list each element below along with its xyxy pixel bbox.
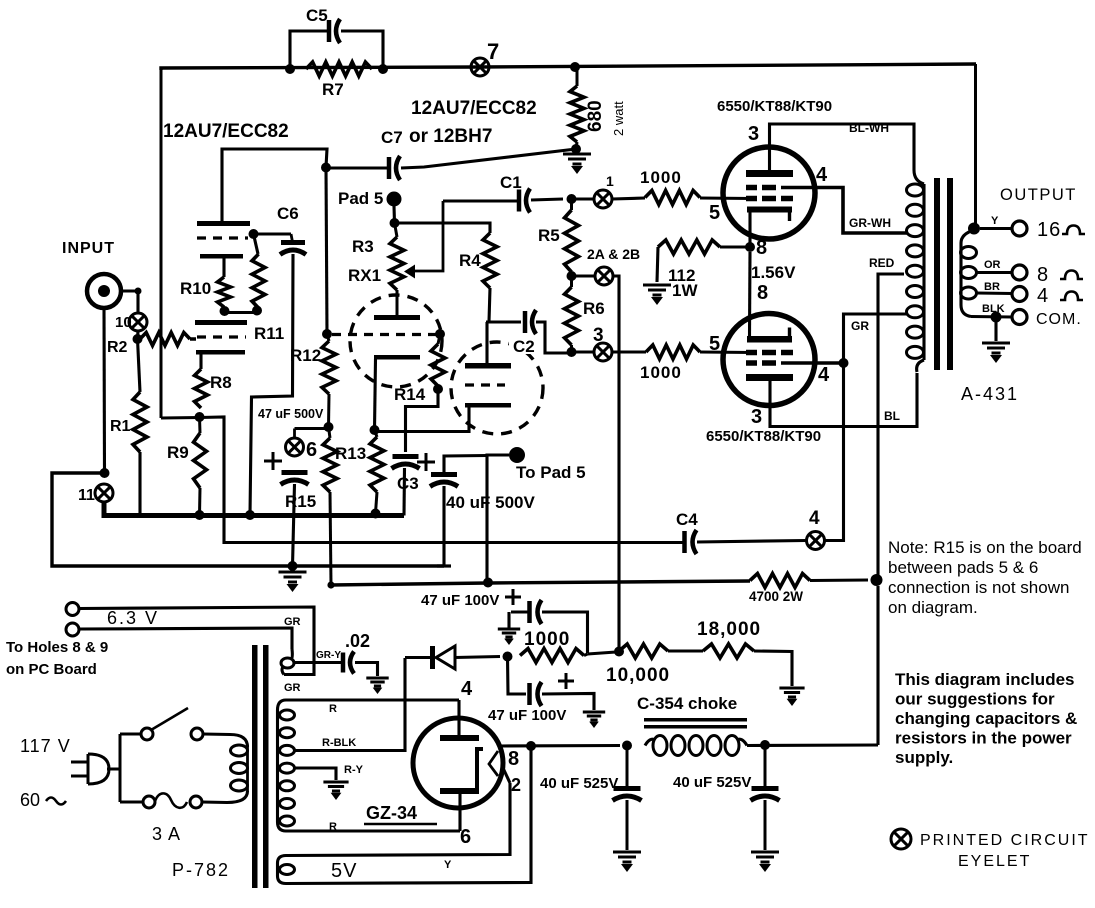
wire top feedback rail <box>161 64 976 70</box>
label 47uF 100V first <box>421 592 499 609</box>
label C3 <box>397 474 419 493</box>
terminal COM <box>1012 310 1027 325</box>
svg-text:C2: C2 <box>513 337 535 356</box>
tube V1b cathode <box>196 350 245 355</box>
wire B+ node to choke <box>876 586 879 745</box>
svg-text:Y: Y <box>991 215 999 227</box>
node C7 left junction <box>321 163 331 173</box>
wire R-BLK to diode <box>294 658 405 751</box>
svg-text:6: 6 <box>460 826 471 848</box>
wire pad to caps <box>487 455 509 582</box>
terminal To Pad 5 <box>509 447 525 463</box>
wire GR tap <box>844 314 909 363</box>
svg-text:on diagram.: on diagram. <box>888 598 978 617</box>
label C5 <box>306 6 328 25</box>
label pin5 upper <box>709 202 720 224</box>
svg-text:R-Y: R-Y <box>344 764 364 776</box>
label GR-Y <box>316 650 341 661</box>
transformer primary spine <box>914 170 924 372</box>
node COM ground <box>991 312 1002 323</box>
transformer primary windings <box>907 184 924 358</box>
wiper arrow RX1 <box>404 201 443 279</box>
label R10 <box>180 279 211 298</box>
wire C7 to 680 bottom <box>401 149 576 168</box>
ground cap2 <box>583 712 605 728</box>
transformer secondary windings <box>961 247 977 300</box>
wire V2b plate up <box>485 322 488 364</box>
ground main <box>279 572 307 592</box>
wire shield to ground rail <box>52 473 292 566</box>
ground cap525 right <box>751 852 779 872</box>
node R12 bottom <box>324 422 334 432</box>
label 12AU7/ECC82 or 12BH7 <box>409 98 537 147</box>
ground cap1 <box>498 629 520 645</box>
label To Holes 8 and 9 <box>6 639 108 656</box>
node after C1 <box>567 194 577 204</box>
label 4 <box>1037 285 1048 307</box>
wire to eyelet1 <box>572 197 595 200</box>
wire cap2 right <box>542 694 594 711</box>
svg-text:10,000: 10,000 <box>606 665 670 686</box>
wire COM ground <box>994 317 997 341</box>
label .02 <box>345 631 370 651</box>
svg-text:R12: R12 <box>290 346 321 365</box>
node R2 left <box>133 334 143 344</box>
capacitor C3 <box>392 457 420 469</box>
tube output upper envelope <box>723 147 815 239</box>
tube V2a grid <box>332 333 440 336</box>
label R3 <box>352 237 374 256</box>
svg-text:Pad 5: Pad 5 <box>338 189 383 208</box>
capacitor 40uF 500V <box>430 475 458 487</box>
svg-text:1W: 1W <box>672 281 698 300</box>
label 6 <box>306 439 317 461</box>
capacitor C1 <box>519 189 530 213</box>
wire feedback join <box>161 416 200 420</box>
label OR <box>984 259 1001 271</box>
svg-text:12AU7/ECC82: 12AU7/ECC82 <box>163 121 289 142</box>
node B+ feed left <box>483 578 493 588</box>
wire 18000 to ground <box>754 651 792 686</box>
svg-text:60: 60 <box>20 790 40 810</box>
resistor R12 <box>322 334 336 427</box>
label R12 <box>290 346 321 365</box>
tube GZ34 cathode <box>477 749 498 790</box>
node pin8 upper <box>745 242 755 252</box>
tube V1b grid <box>197 335 246 338</box>
label R-Y <box>344 764 364 776</box>
terminal 4 ohm <box>1012 287 1027 302</box>
svg-text:R1: R1 <box>110 418 131 435</box>
tube V1b plate <box>195 320 247 325</box>
label on PC Board <box>6 661 97 678</box>
label 3 <box>593 325 604 346</box>
svg-text:10: 10 <box>115 314 132 331</box>
wire V1a plate to C7 node <box>222 149 327 221</box>
resistor R8 <box>195 369 208 408</box>
wire 112 to pin8 <box>720 245 746 248</box>
svg-text:R7: R7 <box>322 80 344 99</box>
ground .02 <box>366 678 388 694</box>
svg-text:2 watt: 2 watt <box>611 101 626 136</box>
wire C4 to eyelet4 <box>697 541 806 543</box>
label R4 <box>459 251 481 270</box>
svg-text:R3: R3 <box>352 237 374 256</box>
tube V2b grid <box>465 383 505 386</box>
label pin2 GZ34 <box>511 775 521 795</box>
node R6 bottom <box>567 347 577 357</box>
svg-text:Y: Y <box>444 859 452 871</box>
tube output lower envelope <box>723 314 815 406</box>
legend eyelet symbol <box>891 829 911 849</box>
wire pin8 to 5V bottom <box>286 746 531 884</box>
svg-text:40 uF 500V: 40 uF 500V <box>446 493 535 512</box>
pad 5 terminal <box>387 192 402 207</box>
ground R-Y <box>323 782 348 800</box>
fuse 3A <box>143 793 202 808</box>
svg-text:R4: R4 <box>459 251 481 270</box>
wire 4700 to B+ node <box>810 578 868 582</box>
eyelet 3 <box>594 343 612 361</box>
tube V2b plate <box>465 363 511 369</box>
label pin5 lower <box>709 333 720 355</box>
label Y wire <box>444 859 452 871</box>
svg-text:connection is not shown: connection is not shown <box>888 578 1069 597</box>
svg-text:C1: C1 <box>500 173 522 192</box>
tube lower plate <box>746 374 793 381</box>
label R2 <box>107 339 128 356</box>
label R8 <box>210 373 232 392</box>
node R10 bottom <box>220 306 230 316</box>
svg-text:8: 8 <box>508 748 519 770</box>
label GR <box>851 319 869 333</box>
svg-text:our suggestions for: our suggestions for <box>895 690 1055 709</box>
svg-text:47 uF 500V: 47 uF 500V <box>258 407 324 421</box>
label RX1 <box>348 266 381 285</box>
svg-text:R9: R9 <box>167 443 189 462</box>
legend EYELET <box>958 853 1031 870</box>
tube V1a plate <box>197 221 250 226</box>
label 47uF 100V second <box>488 707 566 724</box>
svg-text:4: 4 <box>1037 285 1048 307</box>
svg-text:C3: C3 <box>397 474 419 493</box>
transformer P-782 core <box>252 645 269 888</box>
wire C2 right down to eyelet3 line <box>536 322 572 353</box>
svg-text:1000: 1000 <box>640 363 682 382</box>
svg-text:3: 3 <box>751 406 762 428</box>
wire R2 node down to R1 <box>138 339 141 392</box>
resistor cathode shared <box>370 430 384 513</box>
svg-text:R14: R14 <box>394 385 426 404</box>
diode bias <box>405 646 500 669</box>
node 680 bottom <box>571 144 581 154</box>
svg-text:5: 5 <box>709 333 720 355</box>
svg-text:.02: .02 <box>345 631 370 651</box>
svg-text:3 A: 3 A <box>152 824 181 844</box>
resistor R4 <box>483 233 497 288</box>
node junction right of R7 <box>378 64 388 74</box>
node cathode res bottom on rail <box>371 509 381 519</box>
wire RED tap <box>878 274 904 575</box>
svg-text:C4: C4 <box>676 510 698 529</box>
resistor 1000 bias <box>520 649 584 663</box>
wire ground rail right <box>293 564 445 568</box>
label 8 <box>1037 264 1048 286</box>
svg-text:BR: BR <box>984 281 1000 293</box>
wire upper plate to BL-WH <box>770 124 915 170</box>
wire R-Y to ground <box>294 768 336 780</box>
wire C6 down to rail <box>250 254 293 515</box>
wire R10-R11 bottoms <box>225 311 258 314</box>
label 6.3 V <box>107 608 159 628</box>
svg-text:GR-WH: GR-WH <box>849 216 891 230</box>
svg-text:6: 6 <box>306 439 317 461</box>
wire to C7 <box>326 166 387 169</box>
label 117V <box>20 736 71 756</box>
node pin4 lower <box>839 358 849 368</box>
resistor R13 <box>323 427 337 585</box>
wire left feedback vertical <box>160 68 163 418</box>
label 10 <box>115 314 132 331</box>
capacitor C7 <box>389 156 400 180</box>
ground cap525 left <box>613 852 641 872</box>
svg-text:4: 4 <box>818 364 830 386</box>
svg-text:between pads 5 & 6: between pads 5 & 6 <box>888 558 1038 577</box>
resistor R6 <box>565 276 579 352</box>
wire R1 bottom to rail <box>138 452 141 515</box>
transformer secondary spine <box>961 230 974 317</box>
wire R4 bottom to C2 node <box>489 288 490 322</box>
label C1 <box>500 173 522 192</box>
svg-text:R10: R10 <box>180 279 211 298</box>
label R bottom <box>329 821 337 833</box>
node B+ main <box>871 574 883 586</box>
capacitor 47uF 500V bias <box>281 473 309 485</box>
wire eyelet1 to 1000 <box>612 198 645 199</box>
svg-text:GR: GR <box>284 616 301 628</box>
wire cap1 left <box>509 612 530 628</box>
wire C2 node <box>486 320 521 323</box>
label 1 <box>606 173 614 189</box>
svg-text:GZ-34: GZ-34 <box>366 803 417 823</box>
label 11 <box>78 487 95 504</box>
capacitor C2 <box>525 310 536 334</box>
wire upper cathode down <box>748 212 751 247</box>
wire to eyelet 2A2B <box>572 274 596 277</box>
label plus cap1 <box>505 589 521 605</box>
tube lower grids <box>746 353 793 364</box>
label R11 <box>254 324 284 343</box>
resistor R1 <box>133 392 147 452</box>
node cathode res top <box>370 425 380 435</box>
svg-text:680: 680 <box>585 100 606 132</box>
terminal 6.3V lower <box>66 623 79 636</box>
node V1a grid right <box>249 229 259 239</box>
label 16 <box>1037 219 1061 241</box>
svg-text:OR: OR <box>984 259 1001 271</box>
label R top <box>329 703 337 715</box>
svg-text:47 uF 100V: 47 uF 100V <box>421 592 499 609</box>
svg-text:5V: 5V <box>331 860 357 882</box>
label R15 <box>285 492 316 511</box>
input jack <box>87 274 121 308</box>
svg-text:RED: RED <box>869 256 895 270</box>
tube V1a grid <box>197 236 248 239</box>
svg-text:8: 8 <box>1037 264 1048 286</box>
resistor 112 1W <box>658 240 720 254</box>
label 1W <box>672 281 698 300</box>
wire HV bottom to pin6 <box>286 829 460 832</box>
wire GZ34 pin6 <box>458 794 461 831</box>
tube GZ34 plate lower <box>440 788 479 794</box>
choke C-354 windings <box>645 736 747 756</box>
resistor R11 <box>252 254 265 308</box>
wire eyelet 2A2B down to bias <box>613 276 619 651</box>
label pin8 lower <box>757 282 768 304</box>
label BL <box>884 409 900 423</box>
svg-text:BL: BL <box>884 409 900 423</box>
node R8-R9 junction <box>195 412 205 422</box>
svg-text:117 V: 117 V <box>20 736 71 756</box>
capacitor C5 <box>329 19 340 43</box>
wire switch to primary <box>203 734 248 747</box>
label R13 <box>335 444 366 463</box>
wire B+ feed <box>331 581 750 585</box>
label BR <box>984 281 1000 293</box>
label RED <box>869 256 895 270</box>
label 5V <box>331 860 357 882</box>
svg-text:C6: C6 <box>277 204 299 223</box>
wire R6 node to eyelet3 <box>572 350 595 353</box>
label GR-WH <box>849 216 891 230</box>
HV winding loops <box>280 710 295 826</box>
resistor 680 2 watt <box>570 67 584 149</box>
wire BR to 4 ohm <box>977 291 1013 295</box>
wire pin2 to 5V top <box>286 768 510 856</box>
wire C3 to rail corner <box>402 468 406 516</box>
svg-text:PRINTED CIRCUIT: PRINTED CIRCUIT <box>920 832 1090 849</box>
label 60 cycles <box>20 790 66 810</box>
node R11 bottom <box>252 306 262 316</box>
resistor R7 <box>306 62 372 76</box>
wire wiper to C1 <box>443 199 517 202</box>
svg-text:R6: R6 <box>583 299 605 318</box>
wire 6.3V lower <box>79 628 292 649</box>
node choke left <box>622 741 632 751</box>
svg-text:P-782: P-782 <box>172 860 230 880</box>
svg-text:12AU7/ECC82: 12AU7/ECC82 <box>411 98 537 119</box>
svg-text:C7: C7 <box>381 128 403 147</box>
wire eyelet11 to bold rail <box>104 502 404 516</box>
note suggestions text <box>895 670 1077 767</box>
wire eyelet3 to 1000 lower <box>612 350 646 353</box>
label C2 <box>509 336 541 356</box>
svg-text:7: 7 <box>487 39 499 64</box>
resistor 1000 lower <box>646 345 700 359</box>
svg-text:47 uF 100V: 47 uF 100V <box>488 707 566 724</box>
wire C7 node down to grid <box>326 168 327 334</box>
svg-text:4: 4 <box>461 678 473 700</box>
label Pad 5 <box>338 189 383 208</box>
wire GZ34 output <box>500 744 620 748</box>
label BLK <box>982 303 1005 315</box>
svg-text:1.56V: 1.56V <box>751 263 796 282</box>
terminal 8 ohm <box>1012 265 1027 280</box>
wire GR-Y tap <box>294 661 342 664</box>
label pin3 upper <box>748 123 759 145</box>
label COM. <box>1036 311 1082 328</box>
svg-text:GR: GR <box>851 319 869 333</box>
label 18,000 <box>697 619 761 640</box>
wire jack to eyelet 10 <box>120 288 142 314</box>
svg-text:R15: R15 <box>285 492 316 511</box>
switch <box>141 708 203 740</box>
wire .02 to ground <box>355 663 378 677</box>
wire choke right to B+ <box>747 743 878 747</box>
wire pad5 down <box>392 206 396 223</box>
label GR heater top <box>284 616 301 628</box>
terminal 6.3V upper <box>66 603 79 616</box>
tube GZ34 envelope <box>413 718 503 808</box>
label R6 <box>583 299 605 318</box>
svg-text:EYELET: EYELET <box>958 853 1031 870</box>
wire cathode node to V2b cathode <box>375 407 470 432</box>
wire 1000 to 10000 <box>584 652 616 656</box>
wire OR to 8 ohm <box>977 271 1013 274</box>
HV winding spine <box>278 700 287 831</box>
label 40 uF 500V <box>446 493 535 512</box>
svg-text:R13: R13 <box>335 444 366 463</box>
label 2A & 2B <box>587 246 640 262</box>
label plus bias cap <box>264 452 282 470</box>
label 2 watt <box>611 101 626 136</box>
label pin4 lower <box>818 364 830 386</box>
label 1000 bias <box>524 629 570 650</box>
node R14 bottom <box>433 384 443 394</box>
tube V2a cathode <box>374 355 420 360</box>
label 3A <box>152 824 181 844</box>
wire V2a cathode down <box>375 359 376 430</box>
tube V2b envelope <box>451 342 543 434</box>
resistor R2 <box>140 333 196 346</box>
wire to fuse <box>120 800 143 803</box>
5V winding spine <box>278 856 287 884</box>
wire lower plate to BL <box>770 373 917 427</box>
note R15 text <box>888 538 1082 617</box>
resistor R14 <box>431 335 445 389</box>
label plus C3 <box>417 453 435 471</box>
eyelet 2A and 2B <box>595 267 613 285</box>
label 6550/KT88/KT90 upper <box>717 98 832 115</box>
node 680 top <box>570 62 580 72</box>
node choke right <box>760 740 770 750</box>
svg-text:BL-WH: BL-WH <box>849 121 889 135</box>
capacitor 47uF100V first <box>530 600 542 624</box>
svg-text:R-BLK: R-BLK <box>322 737 356 749</box>
wire R11 top lead <box>254 234 259 254</box>
wire to switch <box>120 732 141 735</box>
label 4 eyelet <box>809 508 820 529</box>
5V winding loop <box>280 865 295 875</box>
ground 112 <box>643 285 671 305</box>
resistor R3 RX1 <box>390 223 404 315</box>
svg-text:8: 8 <box>756 237 767 259</box>
label 6550/KT88/KT90 lower <box>706 428 821 445</box>
eyelet 4 <box>807 532 825 550</box>
wire pin4 lower <box>781 361 844 365</box>
label plus cap2 <box>558 673 574 689</box>
wire junction to C4 line <box>200 417 684 543</box>
